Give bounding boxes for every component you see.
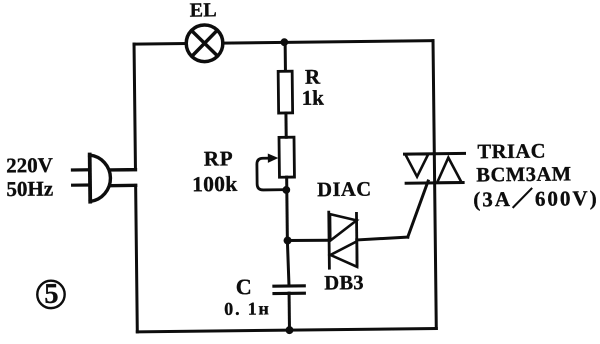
svg-text:(3A／600V): (3A／600V)	[473, 186, 599, 211]
svg-text:DB3: DB3	[324, 272, 364, 294]
svg-text:RP: RP	[204, 146, 234, 170]
svg-text:220V: 220V	[6, 153, 53, 178]
svg-text:EL: EL	[190, 0, 218, 22]
svg-text:TRIAC: TRIAC	[477, 141, 546, 164]
svg-text:100k: 100k	[192, 172, 238, 197]
svg-text:BCM3AM: BCM3AM	[476, 163, 571, 186]
svg-text:1k: 1k	[302, 86, 325, 110]
svg-text:0. 1н: 0. 1н	[224, 298, 271, 319]
svg-text:5: 5	[44, 279, 59, 310]
svg-text:DIAC: DIAC	[317, 179, 372, 202]
svg-text:C: C	[236, 274, 252, 299]
svg-text:50Hz: 50Hz	[6, 177, 53, 202]
